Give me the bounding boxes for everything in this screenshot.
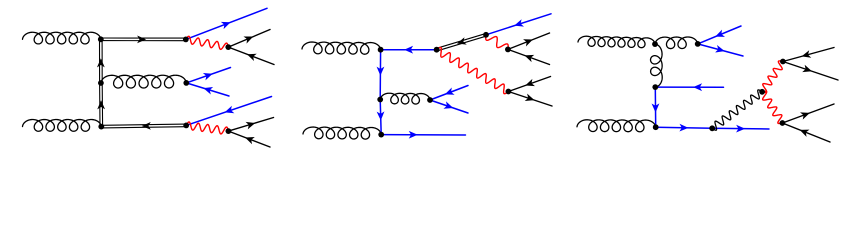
black fermion from P1 lower (arrow away) <box>783 62 838 81</box>
blue fermion from D2 (arrow toward D2) <box>486 14 551 35</box>
blue fermion B3->W3 (arrow right) <box>656 127 713 128</box>
black wavy W boson W3->V3 <box>712 90 762 130</box>
vertex F2 <box>506 89 512 95</box>
red wavy short D2->E2 <box>486 35 508 50</box>
vertex D <box>225 44 231 50</box>
blue fermion from E (arrow toward E) <box>186 97 271 126</box>
black fermion from F2 lower (arrow away) <box>508 92 552 107</box>
gluon g1 incoming (top left) <box>23 32 101 44</box>
vertex A2 <box>378 47 384 53</box>
fermion double line segment B->M (arrow up) <box>100 83 103 127</box>
blue fermion A2->G2 vertical (arrow down) <box>379 50 381 100</box>
black fermion out from F lower (arrow toward) <box>228 131 270 147</box>
vertex P1 <box>780 59 786 65</box>
vertex B <box>98 124 104 130</box>
vertex B2 <box>378 132 384 138</box>
vertex P2 <box>780 120 786 126</box>
fermion double line D2->C2 (arrow toward C2) <box>436 34 486 51</box>
blue fermion G3->B3 vertical (arrow down) <box>654 87 656 127</box>
vertex H2 <box>427 97 433 103</box>
vertex F <box>226 128 232 134</box>
red wavy long C2->F2 <box>437 47 509 93</box>
red wavy V3->P2 lower <box>762 91 782 123</box>
gluon from M to G1 <box>101 75 186 88</box>
gluon incoming bottom (diagram 3) <box>577 120 656 132</box>
gluon A3->T3 (short) <box>655 37 698 49</box>
black fermion from F2 upper (arrow toward) <box>508 77 550 92</box>
blue fermion from H2 upper (arrow toward) <box>430 86 468 101</box>
diagram 3 <box>577 26 838 142</box>
red wavy V3->P1 upper <box>762 61 783 93</box>
vertex E <box>183 123 189 129</box>
red wavy boson E->F <box>186 122 228 134</box>
black fermion out from F upper (arrow away) <box>228 118 273 132</box>
gluon G2->H2 <box>380 93 430 104</box>
blue fermion B2->right (arrow right) <box>381 134 465 136</box>
blue fermion right->G3 horizontal (arrow left) <box>655 86 723 88</box>
vertex W3 <box>709 125 715 131</box>
gluon incoming bottom (diagram 2) <box>303 127 381 139</box>
gluon vertical A3->G3 <box>651 44 663 87</box>
vertex D2 <box>483 32 489 38</box>
black fermion out from D upper (arrow away) <box>228 30 270 48</box>
black fermion from P2 upper (arrow away) <box>782 104 834 123</box>
vertex A3 <box>652 41 658 47</box>
fermion double line segment M->A (arrow up) <box>100 39 103 83</box>
vertex G1 <box>183 80 189 86</box>
vertex G3 <box>652 84 658 90</box>
vertex T3 <box>695 41 701 47</box>
black fermion from E2 upper (arrow away) <box>508 33 550 49</box>
fermion double line A->C (arrow right) <box>101 38 186 41</box>
black fermion out from D lower (arrow toward) <box>228 47 274 64</box>
blue fermion from G1 upper (arrow away) <box>186 68 230 83</box>
vertex M <box>98 80 104 86</box>
black fermion from E2 lower (arrow toward) <box>508 49 550 64</box>
diagram 1 <box>23 8 275 147</box>
black fermion from P1 upper (arrow toward) <box>783 48 834 62</box>
fermion double line E->B (arrow left) <box>101 124 186 128</box>
blue fermion from T3 lower (arrow away) <box>698 44 743 56</box>
gluon g2 incoming (bottom left) <box>23 120 102 132</box>
vertex C2 <box>434 47 440 53</box>
red wavy boson C->D <box>186 36 229 49</box>
black fermion from P2 lower (arrow toward) <box>782 123 830 142</box>
vertex E2 <box>505 47 511 53</box>
vertex C <box>183 37 189 43</box>
blue fermion from G1 lower (arrow toward) <box>186 83 229 96</box>
blue fermion from T3 upper (arrow toward) <box>698 26 741 44</box>
blue fermion out from C (arrow away) <box>186 8 267 39</box>
diagram 2 <box>302 14 552 139</box>
vertex A <box>98 36 104 42</box>
blue fermion C2->A2 horizontal (arrow left) <box>381 49 437 51</box>
blue fermion from H2 lower (arrow away) <box>430 100 468 113</box>
vertex B3 <box>653 124 659 130</box>
vertex G2 <box>377 97 383 103</box>
blue fermion W3->right (arrow right) <box>712 127 769 130</box>
gluon incoming top (diagram 2) <box>302 42 381 54</box>
vertex V3 <box>759 89 765 95</box>
gluon incoming top (diagram 3) <box>578 36 655 47</box>
blue fermion G2->B2 vertical (arrow down) <box>380 100 381 135</box>
